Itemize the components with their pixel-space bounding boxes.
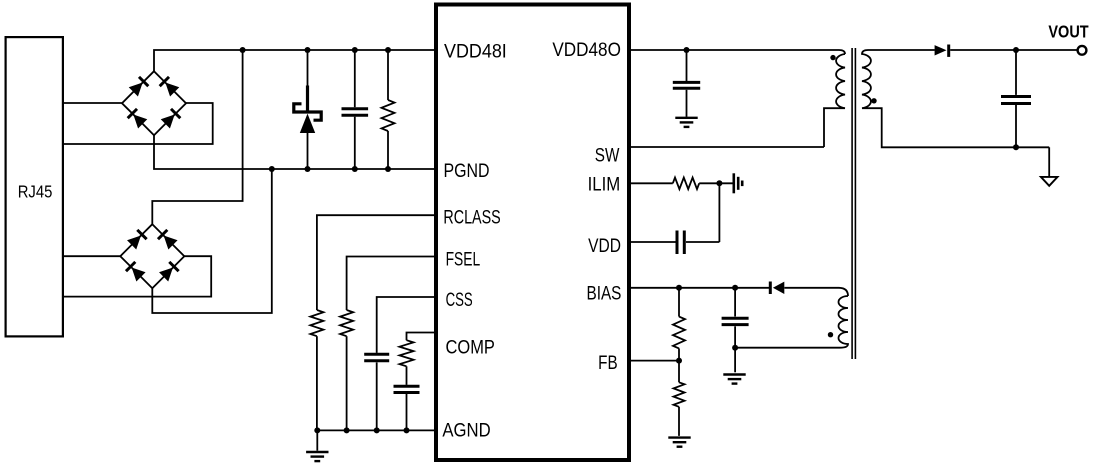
wire VDD48O pin to transformer primary: [631, 50, 845, 54]
diode D7 bias triangle (pointing left): [773, 282, 784, 294]
svg-text:PGND: PGND: [444, 160, 490, 182]
capacitor C2 CSS plates: [364, 353, 389, 356]
junction ILIM node: [716, 180, 722, 186]
diode bridge BR1: [122, 71, 186, 135]
junction VDD48I rail / BR2: [240, 47, 246, 53]
output diode D6 triangle: [935, 45, 947, 55]
junction VDD48I / R1: [385, 47, 391, 53]
svg-text:RCLASS: RCLASS: [443, 207, 500, 228]
wire AGND rail to ground: [316, 430, 318, 450]
wire FSEL pin to R3: [347, 257, 434, 311]
bridge BR2 diode top-left (anode left vertex, cathode top): [127, 230, 147, 250]
wire BIAS pin to diode D7: [631, 287, 770, 289]
bridge BR1 diode bottom-left (anode bottom vertex, cathode left): [128, 109, 148, 129]
bridge BR2 diode bottom-left (anode bottom vertex, cathode left): [126, 262, 146, 282]
resistor R4 COMP zigzag: [400, 340, 414, 366]
wire ILIM pin to R5: [631, 182, 673, 184]
wire BR1 + output to VDD48I rail (node VDD48I): [154, 50, 434, 71]
ground symbol ILIM (rotated): [734, 173, 742, 193]
ground symbol bias: [723, 375, 745, 384]
T1 core: [851, 48, 853, 359]
diode bridge BR2: [120, 224, 184, 288]
svg-text:FB: FB: [598, 351, 617, 373]
TVS zener D5 anode triangle: [300, 114, 315, 133]
junction AGND / R2: [314, 427, 320, 433]
T1 bias winding phase dot: [828, 332, 833, 337]
capacitor C4 plates: [673, 81, 700, 84]
capacitor C7 plates: [722, 317, 749, 320]
transformer T1 secondary winding: [862, 50, 1049, 147]
junction AGND / C2: [374, 427, 380, 433]
wire D6 to VOUT terminal: [950, 49, 1077, 51]
svg-text:COMP: COMP: [446, 336, 495, 357]
wire FB pin to divider: [631, 360, 679, 362]
TVS zener diode D5 cathode lead: [307, 50, 309, 111]
wire D7 to T1 bias winding: [784, 288, 848, 296]
junction PGND / R1: [385, 166, 391, 172]
wire C6 to ILIM node: [686, 241, 719, 243]
bridge BR2 diode top-right (anode right vertex, cathode top): [158, 230, 178, 250]
svg-text:CSS: CSS: [446, 290, 473, 311]
wire R4 to C3: [406, 366, 408, 385]
T1 secondary phase dot: [871, 98, 876, 103]
ground symbol C4: [675, 118, 697, 127]
resistor R7 lower feedback leads: [678, 361, 680, 383]
wire VDD pin to C6: [631, 241, 676, 243]
junction AGND / R3: [344, 427, 350, 433]
wire BR2 + output up to VDD48I rail: [152, 50, 242, 224]
junction FB node: [676, 358, 682, 364]
wire C2 to AGND rail: [376, 362, 378, 430]
svg-text:RJ45: RJ45: [18, 182, 53, 202]
svg-text:SW: SW: [595, 144, 620, 166]
wire BR2 right vertex to RJ45 return: [64, 256, 211, 296]
wire RJ45 pair2 to BR2 left vertex: [64, 255, 120, 257]
wire bias return to ground: [734, 348, 736, 373]
resistor R6 upper feedback leads: [678, 288, 680, 317]
bridge BR1 diode top-left (anode left vertex, cathode top): [129, 77, 149, 97]
wire COMP pin to R4: [407, 333, 435, 341]
bridge BR2 diode bottom-right (anode bottom vertex, cathode right): [159, 262, 179, 282]
junction BIAS / C7: [732, 285, 738, 291]
resistor R7 zigzag: [674, 382, 685, 407]
resistor R1 input shunt leads: [387, 50, 389, 100]
junction PGND / D5: [305, 166, 311, 172]
capacitor C1 plates: [342, 107, 369, 110]
junction VDD48I / C1: [352, 47, 358, 53]
capacitor C1 input bulk leads: [354, 50, 356, 107]
resistor R3 FSEL zigzag: [340, 310, 353, 336]
svg-text:VDD48O: VDD48O: [552, 39, 621, 60]
transformer T1 bias winding: [735, 296, 848, 348]
svg-text:BIAS: BIAS: [586, 282, 621, 304]
svg-text:FSEL: FSEL: [446, 248, 481, 270]
capacitor C3 COMP plates: [394, 385, 420, 388]
resistor R2 RCLASS zigzag: [310, 310, 323, 336]
diode D7 bias cathode bar: [769, 282, 772, 295]
svg-text:VDD48I: VDD48I: [444, 40, 507, 62]
TVS zener D5 cathode bar with hooks: [294, 104, 321, 120]
resistor R1 zigzag: [382, 100, 395, 131]
capacitor C6 VDD plates (vertical): [676, 231, 679, 255]
wire R5 to node: [699, 182, 733, 184]
wire BR1 - output to PGND rail (node PGND): [154, 135, 434, 169]
bridge BR1 diode bottom-right (anode bottom vertex, cathode right): [161, 109, 181, 129]
junction PGND / C1: [352, 166, 358, 172]
IC U1 PoE controller body: [436, 5, 629, 461]
junction bias return / C7: [732, 345, 738, 351]
svg-text:AGND: AGND: [442, 419, 490, 440]
junction VOUT / C5: [1013, 47, 1019, 53]
capacitor C5 output leads: [1015, 50, 1017, 95]
junction BIAS / R6: [676, 285, 682, 291]
wire R2 to AGND rail: [316, 336, 318, 430]
resistor R6 zigzag: [673, 317, 685, 349]
svg-text:VDD: VDD: [588, 234, 621, 256]
wire R3 to AGND rail: [346, 336, 348, 430]
wire BR2 - output to PGND rail: [152, 169, 271, 313]
wire CSS pin to C2: [377, 297, 434, 353]
junction output return / C5: [1013, 144, 1019, 150]
capacitor C4 VDD48O leads: [686, 50, 688, 81]
wire T1 secondary to output diode: [868, 49, 935, 51]
VOUT terminal circle: [1078, 46, 1087, 55]
svg-text:VOUT: VOUT: [1048, 22, 1088, 42]
AGND rail wire: [317, 429, 434, 431]
junction VDD48I / D5: [305, 47, 311, 53]
connector J1 RJ45 body: [6, 37, 63, 336]
capacitor C5 plates: [1001, 95, 1031, 98]
ground symbol output (open triangle): [1041, 177, 1058, 186]
ground symbol AGND: [306, 452, 328, 461]
TVS zener D5 anode lead: [307, 133, 309, 169]
svg-text:ILIM: ILIM: [588, 174, 621, 195]
wire C3 to AGND rail: [406, 394, 408, 430]
bridge BR1 diode top-right (anode right vertex, cathode top): [160, 77, 180, 97]
wire BR1 right vertex to RJ45 return: [64, 103, 213, 144]
wire RJ45 pair1 to BR1 left vertex: [64, 102, 122, 104]
resistor R5 ILIM zigzag: [673, 178, 699, 190]
wire SW pin to T1 primary bottom: [631, 146, 824, 148]
ground symbol FB: [668, 438, 690, 447]
junction PGND rail / BR2: [269, 166, 275, 172]
T1 primary phase dot: [830, 55, 835, 60]
output diode D6 cathode bar: [947, 45, 950, 57]
wire output return to ground: [1048, 147, 1050, 177]
wire RCLASS pin to R2: [317, 215, 434, 310]
junction VDD48O / C4: [684, 47, 690, 53]
transformer T1 primary winding: [824, 54, 845, 147]
junction AGND / C3: [404, 427, 410, 433]
wire ILIM node down to VDD cap: [718, 183, 720, 242]
capacitor C7 bias leads: [734, 288, 736, 317]
